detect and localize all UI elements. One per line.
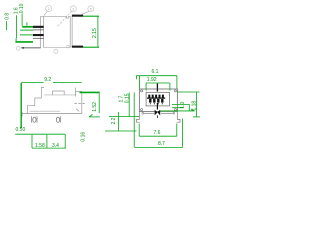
leader arrow to dashed line — [76, 109, 79, 112]
dim line lead (thick) — [15, 41, 33, 43]
arrowhead — [89, 115, 93, 117]
right dim vertical 2.15 — [97, 16, 99, 47]
0.50 leader line — [15, 133, 65, 135]
svg-text:2.15: 2.15 — [92, 28, 98, 38]
7.6 extensions — [139, 124, 177, 137]
left dim vertical 2.2 — [118, 112, 120, 131]
svg-text:1.18: 1.18 — [191, 101, 197, 111]
svg-text:3.4: 3.4 — [52, 143, 59, 149]
svg-text:0.10: 0.10 — [19, 3, 25, 13]
balloon 2 — [46, 6, 52, 12]
svg-text:8.7: 8.7 — [158, 141, 165, 147]
balloon 5 leader — [81, 11, 90, 15]
bottom mounting tab — [72, 46, 83, 48]
bottom dim line 8.7 — [135, 146, 183, 148]
side view body right wall — [70, 16, 72, 47]
bottom lead line with arrow — [22, 47, 41, 49]
right foot — [177, 111, 180, 122]
pin 1 lower line — [33, 29, 44, 31]
center stem above — [156, 84, 158, 92]
pin 2 side line — [60, 116, 62, 122]
top tab bump — [52, 91, 64, 95]
pin 1 side lines — [32, 116, 38, 122]
bottom dim line 7.6 — [139, 135, 177, 137]
front view outer shell — [139, 89, 177, 111]
extension ticks — [32, 134, 65, 148]
balloon 5 — [88, 6, 94, 12]
center stem below — [156, 103, 158, 110]
tick y131 — [105, 130, 137, 132]
svg-text:2: 2 — [48, 7, 50, 11]
svg-text:7.6: 7.6 — [154, 130, 161, 136]
dim 1.52 vertical — [98, 92, 100, 113]
side view body bottom edge — [44, 47, 71, 49]
contact block top bars — [149, 95, 163, 98]
pin 1 (thick) — [33, 26, 44, 28]
svg-text:1.0: 1.0 — [180, 102, 186, 109]
1.92 extensions — [146, 83, 170, 91]
right foot circle — [173, 112, 175, 114]
inner top edge — [44, 94, 76, 96]
top mounting tab — [72, 15, 83, 17]
svg-text:5: 5 — [90, 7, 92, 11]
dim line pin1 bottom — [20, 29, 33, 31]
arrow tick above pin1 — [26, 22, 28, 25]
extension line for 0.8 — [6, 21, 8, 30]
bottom dim line — [32, 147, 66, 149]
left foot inner line — [143, 112, 154, 114]
top view bottom edge — [22, 113, 82, 115]
right dim vertical 1.0 — [188, 104, 190, 111]
extension line for 1.6 — [16, 15, 18, 38]
contact legs — [150, 103, 162, 104]
bottom-left corner tick — [21, 112, 23, 116]
right dim vertical 1.18 — [196, 92, 198, 117]
right dim bottom tick — [83, 46, 99, 48]
svg-text:0.8: 0.8 — [4, 13, 10, 20]
left foot circle — [142, 112, 144, 114]
balloon 4 (below) — [54, 49, 58, 53]
svg-text:6.1: 6.1 — [152, 69, 159, 75]
balloon 3 leader — [58, 11, 72, 26]
dim 1.52 top tick (thick with arrow) — [80, 91, 100, 93]
right tick y104.4 — [172, 103, 190, 105]
svg-text:0.16: 0.16 — [80, 132, 86, 142]
dim 0.16 tick — [89, 116, 100, 118]
right tick y92 — [177, 91, 199, 93]
arrow tick above lead line — [15, 38, 17, 41]
8.7 extensions — [182, 119, 184, 148]
tick y116.6 — [109, 116, 139, 118]
inner shroud — [146, 92, 169, 106]
right foot inner line — [161, 112, 173, 114]
top view left step outline — [27, 88, 44, 114]
right bottom tick — [193, 116, 200, 118]
svg-text:3: 3 — [72, 7, 74, 11]
left dim vertical 0.15 — [128, 93, 130, 117]
contact block lower blobs — [150, 99, 162, 103]
solder pin oval 2 — [56, 117, 59, 122]
side view body left wall — [41, 16, 44, 47]
contact block mid bar — [147, 97, 165, 99]
balloon 6 (below right) — [67, 45, 70, 48]
svg-text:1.52: 1.52 — [92, 102, 98, 112]
top-right piece — [76, 88, 82, 97]
right dim top tick — [83, 15, 99, 17]
dim line pin2 — [20, 34, 33, 36]
svg-text:9.2: 9.2 — [44, 77, 51, 83]
solder pin oval 1 — [33, 117, 36, 122]
hidden dashed line — [75, 103, 86, 105]
balloon 1 (left) — [16, 47, 20, 51]
svg-text:1.92: 1.92 — [147, 77, 157, 83]
svg-text:2.2: 2.2 — [111, 117, 117, 124]
balloon 2 leader — [44, 11, 48, 16]
center bowtie mark — [155, 110, 161, 116]
side view body top edge — [41, 15, 71, 17]
dim line 9.2 — [21, 82, 82, 84]
stem tail below bowtie — [156, 115, 158, 118]
pin 2 lower line — [33, 37, 44, 39]
svg-text:0.15: 0.15 — [125, 93, 131, 103]
right edge — [81, 92, 83, 114]
pin 2 (thick) — [33, 34, 44, 36]
corner rivet circles — [141, 90, 143, 92]
right long line y110.9 — [161, 110, 195, 112]
right tick y107.7 — [172, 107, 183, 109]
extension line for 0.10 — [21, 14, 23, 27]
arrowhead right — [191, 110, 195, 111]
left dim vertical long — [133, 93, 135, 148]
top edge notch — [67, 16, 69, 18]
6.1 extensions — [140, 76, 177, 89]
dim line 1.92 — [146, 82, 170, 84]
balloon 3 — [70, 6, 76, 12]
svg-text:0.50: 0.50 — [16, 127, 26, 133]
svg-text:1.58: 1.58 — [35, 143, 45, 149]
inner bottom line — [30, 110, 60, 112]
left foot — [137, 111, 140, 122]
dim line pin1 (thick) — [22, 26, 33, 28]
dim line 6.1 — [136, 76, 177, 80]
left extension line — [20, 83, 22, 128]
